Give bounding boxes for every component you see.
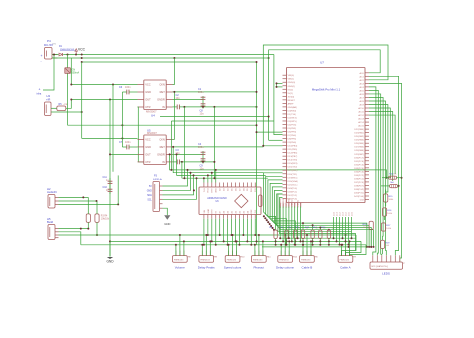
- wire H3 pin2: [51, 111, 82, 113]
- svg-text:MN3007: MN3007: [147, 131, 157, 135]
- svg-text:D5(PE3): D5(PE3): [288, 128, 297, 130]
- svg-text:GND: GND: [145, 145, 151, 149]
- resistor R16: [382, 208, 386, 216]
- wire net D loop: [269, 50, 381, 141]
- svg-text:OUT: OUT: [145, 153, 151, 157]
- svg-text:PINHD1X3: PINHD1X3: [279, 259, 288, 261]
- capacitor C7 at U5 GND: [126, 145, 128, 150]
- svg-text:Build: Build: [47, 220, 53, 224]
- svg-text:D53(PB0): D53(PB0): [280, 198, 282, 207]
- svg-text:D6(PH3): D6(PH3): [288, 132, 297, 134]
- trimmer R4: [95, 214, 99, 223]
- connector H8 Volume: [173, 256, 188, 263]
- svg-text:RST: RST: [212, 209, 214, 214]
- wire y116 long: [160, 116, 269, 118]
- fuse F1: [65, 68, 71, 74]
- capacitor C6 at U4 GND: [126, 90, 128, 95]
- svg-text:GND: GND: [216, 188, 218, 193]
- svg-text:D0(RX0): D0(RX0): [288, 110, 297, 112]
- svg-text:Speed colors: Speed colors: [224, 265, 242, 269]
- svg-text:10u: 10u: [200, 113, 205, 116]
- svg-text:IN: IN: [162, 105, 165, 109]
- svg-text:GND: GND: [106, 260, 114, 264]
- svg-text:CKN: CKN: [159, 83, 165, 87]
- svg-text:Cable A: Cable A: [340, 265, 351, 269]
- wire pots: [87, 197, 89, 214]
- svg-text:D19(RX1): D19(RX1): [288, 177, 298, 179]
- svg-text:D4(PG5): D4(PG5): [288, 124, 297, 126]
- svg-text:10n: 10n: [176, 97, 181, 100]
- svg-text:PINHD1X3: PINHD1X3: [253, 259, 262, 261]
- ground flag under header: [164, 215, 170, 219]
- svg-text:100n: 100n: [198, 91, 204, 94]
- svg-text:+: +: [41, 54, 43, 58]
- svg-text:D7(PH4): D7(PH4): [288, 135, 297, 137]
- wires nano top pins up: [203, 178, 205, 182]
- svg-text:D48(PL1): D48(PL1): [288, 191, 298, 193]
- svg-text:GND: GND: [145, 90, 151, 94]
- svg-text:PINHD1X3: PINHD1X3: [340, 259, 349, 261]
- svg-text:GND(2): GND(2): [292, 200, 294, 207]
- supply VCC: [75, 49, 78, 52]
- wire right long verticals: [369, 76, 399, 255]
- svg-text:PINHD1X3: PINHD1X3: [200, 259, 209, 261]
- svg-text:+: +: [39, 88, 41, 92]
- connector H2 Audio IN: [48, 195, 55, 209]
- svg-text:RST: RST: [212, 188, 214, 193]
- svg-text:D26(PA4): D26(PA4): [354, 142, 364, 145]
- module U2 Arduino Nano: [199, 187, 261, 215]
- module U7 bottom pins: [279, 203, 281, 207]
- svg-text:D35(PC2): D35(PC2): [354, 175, 364, 177]
- svg-text:500mA: 500mA: [72, 71, 80, 74]
- wire bundle h3: [176, 154, 178, 175]
- wire net A drop: [274, 55, 283, 135]
- wire x214 down: [213, 107, 215, 178]
- wire U4 VCC feed: [70, 58, 72, 85]
- junction mid-left: [112, 84, 114, 86]
- wire x113 bus: [112, 85, 114, 172]
- wire header gnd pin: [163, 208, 168, 215]
- svg-text:LEDS: LEDS: [382, 272, 390, 276]
- wire net E U5.RET loop: [263, 45, 388, 147]
- capacitor C4/C9 stack U5: [202, 151, 204, 164]
- wire fuse branch: [67, 55, 69, 68]
- module U2 bottom pins: [203, 215, 205, 219]
- wire U4 CKN up: [173, 58, 175, 85]
- wires U7 bottom pins down: [279, 207, 281, 239]
- svg-text:U4: U4: [151, 114, 155, 118]
- wire x118 up: [117, 175, 119, 204]
- svg-text:5V: 5V: [149, 186, 152, 188]
- svg-text:VCC: VCC: [78, 48, 86, 52]
- wire U5 GNDR: [173, 153, 204, 155]
- resistor row R8-R14: [274, 230, 277, 239]
- svg-text:D14(TX3): D14(TX3): [288, 160, 298, 162]
- pin header SJ1: [153, 182, 160, 212]
- connector H12 Delay column: [278, 256, 293, 263]
- svg-text:D32(PC5): D32(PC5): [354, 164, 364, 166]
- svg-text:Delay column: Delay column: [276, 265, 295, 269]
- svg-text:D50(PB3): D50(PB3): [289, 198, 291, 207]
- connector H11 Pharout: [252, 256, 267, 263]
- svg-text:GNDR: GNDR: [157, 153, 165, 157]
- connector H3 IR: [45, 102, 52, 116]
- svg-text:PINHD1X3: PINHD1X3: [301, 259, 310, 261]
- op IC U5 MN3007: [144, 135, 166, 165]
- wire bundle h1: [170, 154, 383, 170]
- svg-text:REF: REF: [251, 209, 253, 214]
- svg-text:3V3(0): 3V3(0): [288, 96, 295, 98]
- svg-text:D30(PC7): D30(PC7): [354, 157, 364, 159]
- svg-text:AC15: AC15: [358, 125, 364, 128]
- bus wire y241: [110, 240, 361, 242]
- ferrite R20: [389, 176, 397, 179]
- svg-text:D47(PL2): D47(PL2): [288, 195, 298, 197]
- svg-text:D36(PC1): D36(PC1): [354, 178, 364, 180]
- bus wire y238: [280, 237, 356, 239]
- wire gnd taps: [277, 82, 283, 84]
- module U7 right pins: [365, 72, 369, 74]
- svg-text:D9(PH6): D9(PH6): [288, 142, 297, 144]
- connector LEDS: [370, 262, 403, 269]
- svg-text:IN: IN: [162, 160, 165, 164]
- svg-text:PINHD1X3: PINHD1X3: [174, 259, 183, 261]
- module U7 MegaShift Pro Mini: [287, 68, 366, 203]
- wire H2 pin3: [59, 203, 119, 205]
- wire VCC top: [52, 54, 59, 56]
- svg-text:GND: GND: [164, 222, 170, 226]
- op IC U4 MN3007: [144, 80, 166, 110]
- svg-text:100n: 100n: [125, 86, 131, 89]
- diode D1: [59, 53, 62, 56]
- wire pin taps x256: [257, 131, 283, 133]
- capacitor C2 series U4 IN: [173, 106, 178, 108]
- trimmer R3: [86, 214, 90, 223]
- wire U4 RET down to U5 CKN: [173, 92, 175, 139]
- resistor R18: [369, 221, 373, 229]
- wire bundle h4: [182, 177, 268, 179]
- wire x171 drop: [170, 121, 172, 170]
- wire extra right runs: [280, 198, 356, 251]
- svg-text:Pharout: Pharout: [254, 265, 265, 269]
- svg-text:D51(PB2): D51(PB2): [286, 198, 288, 207]
- wire H2 pin2: [59, 200, 98, 202]
- svg-text:RET: RET: [160, 90, 166, 94]
- wire H5 pin3 long: [59, 234, 357, 236]
- wire U5 RET long: [173, 146, 264, 148]
- svg-text:RET: RET: [160, 145, 166, 149]
- svg-text:D23(PA1): D23(PA1): [354, 132, 364, 135]
- svg-text:D31(PC6): D31(PC6): [354, 161, 364, 163]
- svg-text:OUT: OUT: [145, 98, 151, 102]
- diagonal junction beads: [263, 215, 265, 217]
- svg-text:R3 R4: R3 R4: [101, 216, 108, 218]
- svg-text:Delay Peaks: Delay Peaks: [198, 265, 215, 269]
- svg-text:PINHD1X3: PINHD1X3: [227, 259, 236, 261]
- svg-text:D12(PB6): D12(PB6): [288, 153, 298, 155]
- connector H6 Cable B: [300, 256, 315, 263]
- capacitor C3 series U5 IN: [173, 161, 178, 163]
- svg-text:GND(0): GND(0): [288, 82, 296, 84]
- wire y121 long: [171, 120, 274, 122]
- bus wire y246: [262, 246, 372, 248]
- wire y116 tap: [268, 117, 270, 122]
- svg-text:VIN(1): VIN(1): [288, 79, 295, 81]
- svg-text:SDA: SDA: [147, 194, 152, 197]
- svg-text:D52(PB1): D52(PB1): [283, 198, 285, 207]
- svg-text:100n: 100n: [125, 141, 131, 144]
- wire net B: [52, 57, 269, 59]
- svg-text:D49(PL0): D49(PL0): [288, 188, 298, 190]
- resistor R19: [380, 240, 384, 248]
- svg-text:AC12: AC12: [358, 114, 364, 117]
- resistor R17: [381, 223, 385, 231]
- svg-text:VCC: VCC: [145, 138, 151, 142]
- wire net C: [82, 61, 257, 63]
- svg-text:D17(RX2): D17(RX2): [288, 170, 298, 172]
- component at nano right edge: [259, 195, 262, 207]
- connector H10 Speed colors: [225, 256, 240, 263]
- svg-text:D16(TX2): D16(TX2): [288, 167, 298, 169]
- svg-text:D38(PD7): D38(PD7): [354, 185, 364, 187]
- connector H9 Delay Peaks: [199, 256, 214, 263]
- wire x184 down: [183, 107, 185, 178]
- svg-text:GND(AR): GND(AR): [288, 106, 298, 109]
- wires R20 R21: [383, 170, 386, 178]
- svg-text:DIN: DIN: [52, 43, 56, 45]
- svg-text:D8(PH5): D8(PH5): [288, 139, 297, 141]
- wire U5 VCC feed y138: [82, 137, 138, 139]
- svg-text:VIN: VIN: [204, 210, 206, 214]
- svg-text:Volume: Volume: [175, 265, 185, 269]
- svg-text:D22(PA0): D22(PA0): [354, 128, 364, 131]
- svg-text:D1(TX0): D1(TX0): [288, 114, 297, 116]
- wire vertical x110 signal/gnd: [109, 100, 111, 257]
- wire net C drop x256: [256, 62, 258, 245]
- svg-text:SCL: SCL: [147, 199, 152, 201]
- svg-text:D29(PA7): D29(PA7): [354, 153, 364, 156]
- ground left: [109, 241, 111, 256]
- connector H7 Cable A: [338, 256, 353, 263]
- wire x122 caps: [121, 92, 123, 147]
- wire x182 down: [181, 162, 183, 178]
- module U7 left pins: [283, 74, 287, 76]
- capacitor C11: [109, 178, 111, 194]
- wire R5 out: [66, 100, 72, 109]
- svg-text:D20(SDA): D20(SDA): [288, 180, 298, 183]
- svg-text:SJ2X1-A: SJ2X1-A: [153, 178, 162, 181]
- svg-text:GND: GND: [208, 208, 210, 213]
- wire bundle h2: [173, 147, 263, 173]
- svg-text:D34(PC3): D34(PC3): [354, 171, 364, 173]
- svg-text:D21(SCL): D21(SCL): [288, 184, 298, 186]
- wire right bundle verticals: [369, 87, 376, 255]
- svg-text:AC10: AC10: [358, 107, 364, 110]
- svg-text:10k/10k: 10k/10k: [101, 219, 110, 221]
- wire bus ends right: [342, 235, 357, 256]
- svg-text:5V(1): 5V(1): [288, 93, 294, 95]
- svg-text:Cable B: Cable B: [302, 265, 313, 269]
- svg-text:VIN(0): VIN(0): [288, 75, 295, 77]
- svg-text:CTR: CTR: [145, 105, 150, 109]
- svg-text:AREF: AREF: [288, 102, 294, 105]
- svg-text:D10(PB4): D10(PB4): [288, 146, 298, 148]
- wire H5 pin2: [59, 232, 81, 245]
- wire stub flag: [43, 55, 54, 91]
- svg-text:D13(PB7): D13(PB7): [288, 156, 298, 158]
- ferrite R21: [390, 185, 398, 188]
- svg-text:D37(PC0): D37(PC0): [354, 182, 364, 184]
- capacitor C1/C8 stack U4: [202, 96, 204, 109]
- wire y125 to bus: [68, 124, 257, 126]
- connector P4 DC-5V: [45, 48, 53, 60]
- wire U4 GNDR: [173, 98, 204, 100]
- wires nano bottom pins down: [203, 219, 205, 245]
- wire x81 down: [81, 62, 83, 138]
- wire R18 bottom: [370, 230, 372, 247]
- svg-text:D2(INT4): D2(INT4): [288, 117, 297, 119]
- resistor R15: [384, 194, 388, 202]
- resistor R5 series: [57, 106, 66, 111]
- svg-text:U7: U7: [320, 61, 324, 65]
- svg-text:+IR: +IR: [46, 98, 50, 102]
- connector H5: [48, 225, 55, 240]
- svg-text:GND(1): GND(1): [288, 86, 296, 88]
- svg-text:D33(PC4): D33(PC4): [354, 168, 364, 170]
- svg-text:CKN: CKN: [159, 138, 165, 142]
- svg-text:D25(PA3): D25(PA3): [354, 139, 364, 142]
- svg-text:BOT-QUAT-B PX-Q: BOT-QUAT-B PX-Q: [372, 265, 389, 268]
- wire H5 pin1: [59, 228, 89, 230]
- svg-text:D18(TX1): D18(TX1): [288, 174, 298, 176]
- svg-text:-: -: [41, 59, 42, 63]
- svg-text:D15(RX3): D15(RX3): [288, 163, 298, 165]
- svg-text:100n: 100n: [198, 146, 204, 149]
- svg-text:infra: infra: [37, 93, 42, 96]
- module U2 top pins: [203, 183, 205, 188]
- svg-text:GND: GND: [147, 190, 152, 192]
- svg-text:D40(PG1): D40(PG1): [354, 192, 364, 194]
- wire U4 OUT chain: [71, 99, 137, 101]
- svg-text:AC14: AC14: [358, 121, 364, 124]
- svg-text:D24(PA2): D24(PA2): [354, 135, 364, 138]
- wire fan diag bundle: [264, 173, 283, 230]
- svg-text:D3(INT5): D3(INT5): [288, 121, 297, 123]
- wire U5 OUT: [110, 153, 138, 155]
- crystal diamond: [235, 194, 248, 207]
- svg-text:D41(PG0): D41(PG0): [354, 196, 364, 198]
- svg-text:RESET: RESET: [288, 100, 296, 102]
- wires header pins to bundle: [163, 170, 188, 186]
- svg-text:D11(PB5): D11(PB5): [288, 149, 298, 151]
- svg-text:GNDR: GNDR: [157, 98, 165, 102]
- wire U4 RET long: [173, 91, 257, 93]
- svg-text:AudioIN: AudioIN: [47, 190, 57, 194]
- bus wire y244: [81, 244, 366, 246]
- svg-text:AC11: AC11: [358, 111, 364, 114]
- svg-text:D27(PA5): D27(PA5): [354, 146, 364, 149]
- svg-text:D28(PA6): D28(PA6): [354, 149, 364, 152]
- svg-text:CTR: CTR: [145, 160, 150, 164]
- svg-text:5V(0): 5V(0): [288, 89, 294, 91]
- svg-text:MegaShift Pro Mini 1.1: MegaShift Pro Mini 1.1: [312, 87, 341, 91]
- svg-text:VCC: VCC: [145, 83, 151, 87]
- svg-text:GND(3): GND(3): [297, 200, 299, 207]
- svg-text:D39(PG2): D39(PG2): [354, 189, 364, 191]
- wire H2 pin1: [59, 196, 89, 198]
- junction dots top: [67, 54, 69, 56]
- svg-text:AC13: AC13: [358, 118, 364, 121]
- wire U4 CTR chain: [138, 107, 144, 162]
